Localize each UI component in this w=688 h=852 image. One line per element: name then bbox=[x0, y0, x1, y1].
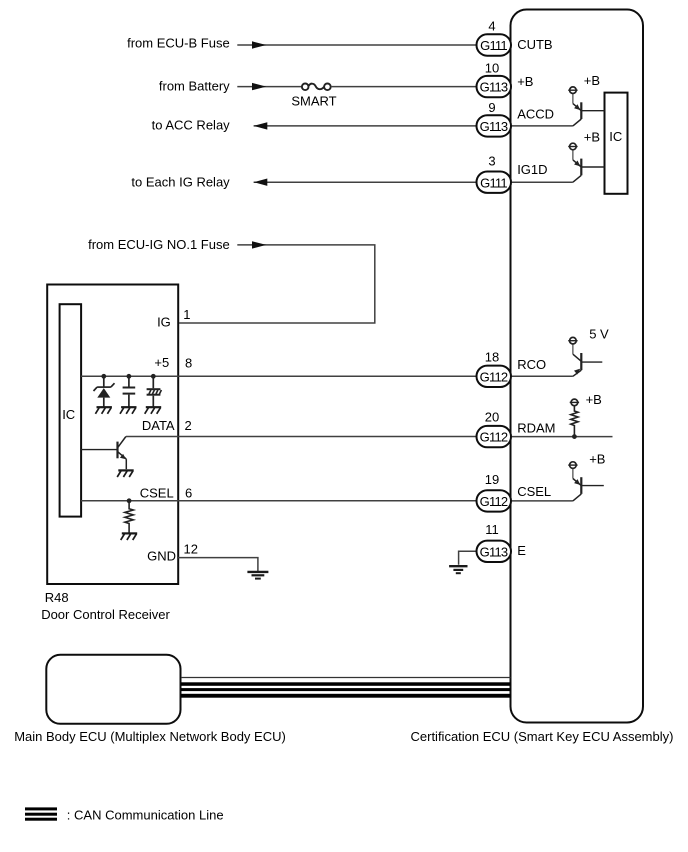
svg-text:IC: IC bbox=[62, 407, 75, 422]
svg-text:from ECU-B Fuse: from ECU-B Fuse bbox=[127, 35, 230, 50]
svg-text:G113: G113 bbox=[480, 80, 508, 95]
svg-text:8: 8 bbox=[185, 356, 192, 371]
svg-text:G113: G113 bbox=[480, 119, 508, 134]
wire CSEL right to transistor bbox=[511, 500, 573, 502]
svg-text:ACCD: ACCD bbox=[517, 106, 554, 121]
ground under C2 bbox=[145, 407, 162, 414]
connector oval G111 pin 3 bbox=[477, 154, 512, 193]
svg-text:to Each IG Relay: to Each IG Relay bbox=[131, 174, 230, 189]
junction dot on +5 at zener bbox=[101, 374, 106, 379]
arrow left on IG1D wire bbox=[254, 179, 268, 186]
wire ACCD to ACC Relay bbox=[254, 125, 477, 127]
ground at E pin bbox=[449, 566, 467, 573]
arrow on Q3 emitter bbox=[574, 161, 580, 167]
svg-text:G111: G111 bbox=[480, 38, 507, 53]
svg-text:2: 2 bbox=[185, 418, 192, 433]
svg-text:Certification ECU (Smart Key E: Certification ECU (Smart Key ECU Assembl… bbox=[411, 729, 674, 744]
wire ACCD oval to transistor bbox=[511, 125, 573, 127]
connector oval G113 pin 11 bbox=[477, 522, 512, 562]
svg-text:+B: +B bbox=[586, 392, 602, 407]
svg-text:IG1D: IG1D bbox=[517, 162, 547, 177]
ground for GND pin bbox=[247, 572, 268, 579]
transistor Q4 at RCO bbox=[568, 337, 602, 376]
svg-text:CSEL: CSEL bbox=[140, 485, 174, 500]
junction dot on +5 at C1 bbox=[126, 374, 131, 379]
arrow on Q1 emitter bbox=[120, 454, 126, 459]
connector oval G112 pin 19 bbox=[477, 472, 512, 512]
svg-text:19: 19 bbox=[485, 472, 499, 487]
wire from ECU-B Fuse to CUTB bbox=[237, 44, 476, 46]
connector oval G112 pin 20 bbox=[477, 409, 512, 447]
wire RDAM line bbox=[511, 436, 613, 438]
svg-text:SMART: SMART bbox=[291, 94, 336, 109]
zener diode D1 bbox=[94, 376, 115, 407]
R48 box Door Control Receiver bbox=[47, 285, 178, 585]
resistor R3 pull-up at RDAM bbox=[570, 399, 579, 437]
svg-text:G111: G111 bbox=[480, 175, 507, 190]
capacitor C1 bbox=[123, 376, 136, 407]
svg-text:6: 6 bbox=[185, 486, 192, 501]
svg-text:CUTB: CUTB bbox=[517, 37, 552, 52]
capacitor C2 hatched bbox=[147, 376, 162, 407]
svg-text:1: 1 bbox=[183, 307, 190, 322]
wire CSEL line pin 6 bbox=[81, 500, 477, 502]
svg-text:IC: IC bbox=[609, 129, 622, 144]
arrow on Q5 emitter bbox=[574, 479, 580, 485]
arrow on Q2 emitter bbox=[574, 104, 580, 110]
junction dot RDAM bbox=[572, 434, 577, 439]
resistor R2 on CSEL bbox=[125, 501, 133, 533]
Main Body ECU box bbox=[46, 655, 180, 724]
arrow right on Battery wire bbox=[252, 83, 266, 90]
wire +5 / RCO line pin 8 bbox=[81, 375, 477, 377]
svg-text:IG: IG bbox=[157, 315, 171, 330]
svg-text:18: 18 bbox=[485, 350, 499, 365]
svg-text:E: E bbox=[517, 543, 526, 558]
svg-text:+B: +B bbox=[517, 74, 533, 89]
svg-text:+B: +B bbox=[584, 129, 600, 144]
svg-text:GND: GND bbox=[147, 549, 176, 564]
transistor Q3 PNP at IG1D bbox=[568, 143, 604, 182]
svg-text:9: 9 bbox=[488, 100, 495, 115]
svg-text:G112: G112 bbox=[480, 430, 508, 445]
connector oval G113 pin 9 bbox=[477, 100, 512, 136]
IC U3 inside R48 bbox=[60, 304, 82, 516]
svg-text:+B: +B bbox=[589, 452, 605, 467]
wire RCO to transistor bbox=[511, 375, 573, 377]
svg-text:3: 3 bbox=[488, 154, 495, 169]
wire from Battery to fuse bbox=[237, 86, 301, 88]
svg-text:20: 20 bbox=[485, 409, 499, 424]
svg-text:4: 4 bbox=[488, 19, 495, 34]
fuse SMART bbox=[302, 84, 331, 91]
wire IG1D oval to transistor bbox=[511, 181, 573, 183]
wire GND pin 12 to ground bbox=[178, 558, 258, 571]
ground under Q1 bbox=[117, 470, 134, 477]
svg-text:10: 10 bbox=[485, 60, 499, 75]
junction dot on +5 at C2 bbox=[151, 374, 156, 379]
arrow right on ECU-B wire bbox=[252, 41, 266, 48]
svg-text:12: 12 bbox=[184, 542, 198, 557]
transistor Q1 NPN in R48 bbox=[81, 437, 126, 470]
svg-text:Main Body ECU (Multiplex Netwo: Main Body ECU (Multiplex Network Body EC… bbox=[14, 729, 286, 744]
arrow left on ACC wire bbox=[254, 122, 268, 129]
transistor Q5 at CSEL bbox=[568, 462, 604, 501]
svg-text:Door Control Receiver: Door Control Receiver bbox=[41, 607, 170, 622]
svg-text:from Battery: from Battery bbox=[159, 79, 230, 94]
ground under C1 bbox=[120, 407, 137, 414]
svg-text:RCO: RCO bbox=[517, 357, 546, 372]
wire IG1D to Each IG Relay bbox=[254, 181, 477, 183]
svg-text:G112: G112 bbox=[480, 494, 508, 509]
svg-text:from ECU-IG NO.1 Fuse: from ECU-IG NO.1 Fuse bbox=[88, 237, 230, 252]
ground under zener bbox=[95, 407, 112, 414]
wire from ECU-IG NO.1 Fuse elbow to pin IG bbox=[179, 245, 375, 323]
junction dot on CSEL at R2 bbox=[127, 498, 132, 503]
wire DATA / RDAM line pin 2 bbox=[126, 436, 477, 438]
svg-text:5 V: 5 V bbox=[589, 326, 609, 341]
CAN communication line bundle bbox=[181, 678, 511, 698]
connector oval G111 pin 4 bbox=[477, 19, 512, 56]
wire E pin to ground bbox=[459, 551, 477, 565]
legend CAN symbol bbox=[25, 807, 57, 820]
wire fuse to +B pin bbox=[331, 86, 477, 88]
svg-text:: CAN Communication Line: : CAN Communication Line bbox=[67, 807, 224, 822]
ground under R2 bbox=[121, 533, 138, 540]
connector oval G113 pin 10 bbox=[477, 60, 512, 97]
svg-text:DATA: DATA bbox=[142, 418, 175, 433]
arrow on Q4 emitter lower bbox=[574, 369, 580, 375]
svg-text:R48: R48 bbox=[45, 590, 69, 605]
arrow right on ECU-IG wire bbox=[252, 241, 266, 248]
transistor Q2 PNP at ACCD bbox=[568, 87, 604, 126]
svg-text:+5: +5 bbox=[154, 355, 169, 370]
svg-text:11: 11 bbox=[485, 522, 499, 537]
connector oval G112 pin 18 bbox=[477, 350, 512, 387]
svg-text:G113: G113 bbox=[480, 544, 508, 559]
svg-text:G112: G112 bbox=[480, 369, 508, 384]
svg-text:+B: +B bbox=[584, 73, 600, 88]
svg-text:CSEL: CSEL bbox=[517, 484, 551, 499]
svg-text:to ACC Relay: to ACC Relay bbox=[152, 117, 231, 132]
IC U1 inside Certification ECU bbox=[605, 93, 628, 194]
svg-text:RDAM: RDAM bbox=[517, 421, 555, 436]
ECU box U2 Certification ECU (Smart Key ECU Assembly) bbox=[511, 10, 644, 723]
